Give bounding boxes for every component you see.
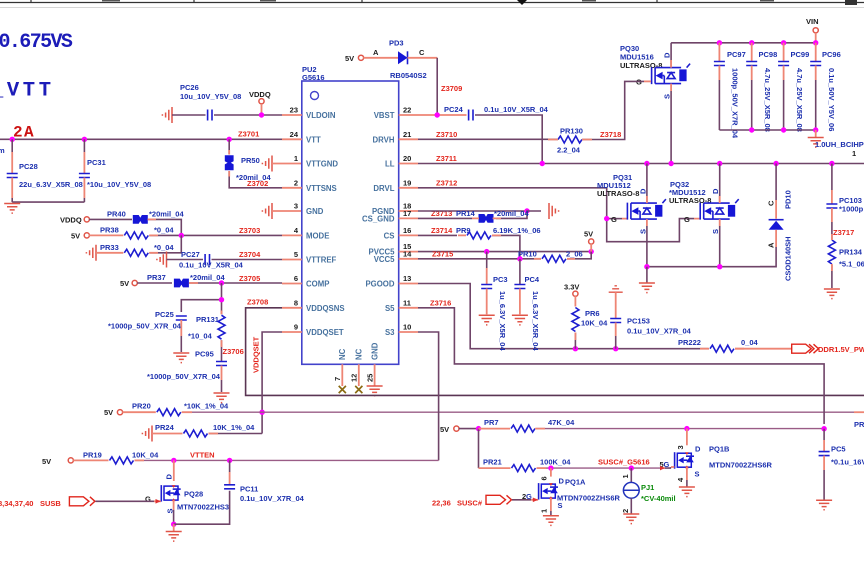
- svg-text:12: 12: [350, 374, 359, 382]
- svg-text:4.7u_25V_X5R_08: 4.7u_25V_X5R_08: [763, 68, 772, 132]
- power symbol 5V (PR37): [120, 279, 137, 288]
- power symbol 5V (PR7): [440, 425, 459, 434]
- svg-text:PQ1A: PQ1A: [565, 478, 586, 487]
- svg-text:Z3715: Z3715: [432, 249, 453, 258]
- svg-text:G: G: [684, 215, 690, 224]
- svg-text:D: D: [695, 445, 701, 454]
- svg-text:S: S: [695, 470, 700, 479]
- wire 5V split: [459, 426, 481, 468]
- svg-text:ULTRASO-8: ULTRASO-8: [620, 61, 662, 70]
- svg-text:D: D: [559, 477, 565, 486]
- title text _VTT: [0, 80, 55, 103]
- resistor PR6: [572, 296, 608, 349]
- svg-text:*0_04: *0_04: [154, 243, 174, 252]
- svg-text:G: G: [611, 215, 617, 224]
- capacitor PC27: [157, 250, 282, 269]
- svg-text:PC98: PC98: [759, 50, 778, 59]
- svg-text:RB0540S2: RB0540S2: [390, 71, 427, 80]
- svg-text:6: 6: [294, 274, 298, 283]
- wire COMP branch: [181, 283, 224, 314]
- svg-text:PR24: PR24: [155, 423, 175, 432]
- svg-text:PC28: PC28: [19, 162, 38, 171]
- svg-text:m: m: [0, 146, 5, 155]
- svg-text:VTTEN: VTTEN: [190, 450, 215, 459]
- svg-text:22,36: 22,36: [432, 498, 451, 507]
- capacitor PC3: [479, 252, 508, 352]
- svg-text:DRVH: DRVH: [373, 135, 395, 144]
- wire PQ31/PQ32 source rail: [644, 264, 776, 269]
- wire VDDQSET vertical: [259, 332, 282, 434]
- svg-text:PC97: PC97: [727, 50, 746, 59]
- power symbol VIN: [806, 17, 819, 43]
- capacitor PC96: [810, 43, 841, 132]
- svg-text:PD3: PD3: [389, 39, 404, 48]
- svg-text:6.19K_1%_06: 6.19K_1%_06: [493, 226, 541, 235]
- svg-text:1000p_50V_X7R_04: 1000p_50V_X7R_04: [731, 68, 740, 139]
- capacitor PC98: [746, 43, 777, 132]
- wire S5 Z3716: [418, 298, 824, 424]
- PU2 bottom pin numbers 7 12 25: [333, 374, 374, 382]
- transistor PQ30: [620, 43, 690, 99]
- svg-text:VDDQSET: VDDQSET: [306, 328, 344, 337]
- power symbol VDDQ (pin23): [249, 90, 271, 118]
- transistor PQ1B: [675, 429, 773, 487]
- svg-text:VTTGND: VTTGND: [306, 160, 338, 169]
- svg-text:CS: CS: [384, 231, 395, 240]
- svg-text:PR7: PR7: [484, 418, 499, 427]
- wire SUSC#_G5616 net: [537, 458, 670, 471]
- svg-text:*5.1_06: *5.1_06: [839, 260, 864, 269]
- svg-text:PC27: PC27: [181, 250, 200, 259]
- PU2 left pin names: [306, 111, 345, 337]
- svg-text:PQ28: PQ28: [184, 490, 203, 499]
- ground pin25: [367, 386, 383, 396]
- capacitor PC25: [108, 310, 189, 363]
- svg-text:PR20: PR20: [132, 402, 151, 411]
- svg-text:47K_04: 47K_04: [548, 418, 575, 427]
- wire LL rail Z3711: [418, 154, 864, 166]
- svg-text:PR19: PR19: [83, 450, 102, 459]
- svg-text:PJ1: PJ1: [641, 483, 654, 492]
- svg-text:3.3V: 3.3V: [564, 283, 579, 292]
- svg-text:10u_10V_Y5V_08: 10u_10V_Y5V_08: [180, 92, 241, 101]
- wire VCC5 Z3715: [418, 249, 541, 261]
- svg-text:Z3711: Z3711: [436, 154, 457, 163]
- svg-text:0_04: 0_04: [741, 338, 759, 347]
- svg-text:PC26: PC26: [180, 83, 199, 92]
- svg-text:PC24: PC24: [444, 105, 464, 114]
- capacitor PC24: [444, 105, 549, 164]
- transistor PQ32: [669, 164, 739, 267]
- svg-text:A: A: [767, 242, 776, 248]
- resistor PR21: [479, 458, 572, 472]
- capacitor PC5: [816, 429, 864, 510]
- resistor PR33: [86, 235, 181, 260]
- capacitor PC28: [7, 139, 83, 202]
- jumper PJ1: [621, 468, 676, 514]
- wire input-cap bottom rail: [719, 127, 818, 132]
- resistor PR37 (20mil jumper): [137, 273, 282, 287]
- wire SUSB to PQ28 gate: [96, 499, 161, 504]
- IC PU2 G5616: [302, 65, 399, 364]
- capacitor PC31: [79, 139, 151, 202]
- wire PR7 to S5 node: [536, 426, 827, 432]
- svg-text:VTT: VTT: [306, 135, 321, 144]
- resistor PR40 (20mil jumper): [89, 210, 184, 236]
- svg-text:C: C: [767, 200, 776, 206]
- svg-text:10: 10: [403, 323, 411, 332]
- no-connect X pin12: [355, 386, 362, 393]
- svg-text:PR38: PR38: [100, 226, 119, 235]
- svg-text:PR131: PR131: [196, 315, 219, 324]
- ground PQ28: [166, 524, 182, 541]
- net connector SUSB: [0, 497, 95, 508]
- resistor PR131: [188, 315, 244, 362]
- svg-text:PR: PR: [854, 420, 864, 429]
- svg-text:PC153: PC153: [627, 317, 650, 326]
- svg-text:19: 19: [403, 178, 411, 187]
- svg-text:PR14: PR14: [456, 209, 476, 218]
- svg-text:D: D: [165, 474, 174, 480]
- wire DRVL Z3712: [418, 178, 700, 241]
- svg-text:PGOOD: PGOOD: [365, 280, 394, 289]
- wire PD3 cathode to VBST: [437, 58, 462, 115]
- svg-text:10K_04: 10K_04: [581, 319, 608, 328]
- svg-text:VIN: VIN: [806, 17, 819, 26]
- svg-text:PR21: PR21: [483, 458, 502, 467]
- svg-text:16: 16: [403, 226, 411, 235]
- svg-text:GND: GND: [371, 342, 380, 360]
- svg-text:ULTRASO-8: ULTRASO-8: [597, 189, 639, 198]
- svg-text:PR33: PR33: [100, 243, 119, 252]
- capacitor PC153: [610, 292, 691, 349]
- wire PQ30 source to LL rail: [670, 91, 672, 164]
- svg-text:Z3702: Z3702: [247, 179, 268, 188]
- resistor PR9: [456, 226, 541, 259]
- svg-text:5V: 5V: [104, 408, 113, 417]
- svg-text:23: 23: [290, 106, 298, 115]
- svg-text:5: 5: [294, 250, 298, 259]
- svg-text:D: D: [663, 52, 672, 58]
- resistor PR7: [479, 418, 576, 432]
- svg-text:VDDQ: VDDQ: [249, 90, 271, 99]
- power symbol 5V (PR19): [42, 457, 73, 466]
- PU2 right pin numbers: [403, 106, 412, 332]
- resistor PR50 (20mil jumper): [225, 139, 282, 188]
- power bar symbol above PC153: [609, 286, 623, 292]
- svg-text:Z3712: Z3712: [436, 178, 457, 187]
- svg-text:S5: S5: [385, 304, 395, 313]
- svg-text:S3: S3: [385, 328, 395, 337]
- svg-text:MTDN7002ZHS6R: MTDN7002ZHS6R: [557, 494, 621, 503]
- svg-text:VDDQSNS: VDDQSNS: [306, 304, 345, 313]
- svg-text:G: G: [145, 495, 151, 504]
- svg-text:8,34,37,40: 8,34,37,40: [0, 499, 33, 508]
- svg-text:PR134: PR134: [839, 248, 863, 257]
- PU2 bottom pin names NC NC GND: [338, 342, 379, 360]
- svg-text:Z3703: Z3703: [239, 226, 260, 235]
- svg-text:Z3705: Z3705: [239, 274, 260, 283]
- svg-text:10K_04: 10K_04: [132, 450, 159, 459]
- resistor PR38: [89, 226, 282, 239]
- node VIN rail junctions: [717, 40, 819, 45]
- svg-text:PR40: PR40: [107, 210, 126, 219]
- svg-text:1.0UH_BCIHP1: 1.0UH_BCIHP1: [815, 140, 864, 149]
- svg-text:Z3717: Z3717: [833, 228, 854, 237]
- capacitor PC11: [224, 460, 305, 503]
- svg-text:0.1u_10V_X7R_04: 0.1u_10V_X7R_04: [627, 327, 692, 336]
- svg-text:2: 2: [621, 509, 630, 513]
- net label VDDQSET (vertical): [252, 336, 261, 373]
- svg-text:DRVL: DRVL: [373, 184, 394, 193]
- resistor PR222: [678, 338, 792, 352]
- svg-text:Z3708: Z3708: [247, 298, 268, 307]
- svg-text:*20mil_04: *20mil_04: [190, 273, 225, 282]
- svg-text:PC25: PC25: [155, 310, 174, 319]
- net connector DDR1.5V_PW: [792, 344, 864, 354]
- capacitor PC26: [162, 83, 282, 123]
- svg-text:Z3714: Z3714: [431, 226, 453, 235]
- svg-text:S: S: [711, 229, 720, 234]
- wire PVCC5 5V row: [418, 249, 594, 254]
- net label m (cut at left edge): [0, 146, 5, 155]
- resistor PR134: [824, 240, 864, 299]
- svg-text:14: 14: [403, 249, 412, 258]
- power symbol 5V (PR20): [104, 408, 123, 417]
- svg-text:*1000p_50V_X7R_04: *1000p_50V_X7R_04: [147, 372, 221, 381]
- svg-text:Z3716: Z3716: [430, 298, 451, 307]
- svg-text:PC96: PC96: [822, 50, 841, 59]
- svg-text:*0_04: *0_04: [154, 226, 174, 235]
- capacitor PC4: [512, 259, 540, 352]
- ground source rail: [639, 267, 655, 293]
- svg-text:5V: 5V: [120, 279, 129, 288]
- PU2 right pin names: [362, 111, 395, 337]
- svg-text:*10_04: *10_04: [188, 332, 213, 341]
- svg-text:C: C: [419, 48, 425, 57]
- title text 0.675VS: [0, 31, 73, 54]
- net label 2A: [13, 124, 35, 142]
- svg-text:VDDQ: VDDQ: [60, 215, 82, 224]
- wire VBST to PC24: [418, 112, 467, 117]
- wire PC28/PC31 bottom rail: [12, 201, 84, 203]
- svg-text:VLDOIN: VLDOIN: [306, 111, 336, 120]
- svg-text:MODE: MODE: [306, 231, 329, 240]
- svg-text:21: 21: [403, 130, 411, 139]
- svg-text:CS_GND: CS_GND: [362, 215, 395, 224]
- svg-text:Z3718: Z3718: [600, 130, 621, 139]
- wire VIN rail: [671, 42, 816, 44]
- ground PGND: [549, 203, 559, 219]
- svg-text:D: D: [638, 188, 647, 194]
- svg-text:PC5: PC5: [831, 445, 846, 454]
- capacitor PC103: [826, 164, 863, 240]
- svg-text:2_06: 2_06: [566, 249, 583, 258]
- wire PGND/CS_GND Z3713: [418, 208, 541, 218]
- svg-text:1u_6.3V_X5R_04: 1u_6.3V_X5R_04: [498, 291, 507, 351]
- svg-text:1: 1: [852, 149, 856, 158]
- power symbol VDDQ (MODE row): [60, 215, 89, 224]
- svg-text:4: 4: [676, 477, 685, 482]
- svg-text:0.1u_10V_X5R_04: 0.1u_10V_X5R_04: [179, 260, 244, 269]
- ground PQ1B: [679, 487, 695, 497]
- net connector SUSC#: [432, 495, 512, 507]
- svg-text:S: S: [638, 229, 647, 234]
- svg-text:MTN7002ZHS3: MTN7002ZHS3: [177, 503, 229, 512]
- svg-text:PC31: PC31: [87, 158, 106, 167]
- net label PR (cut at right edge): [854, 420, 864, 429]
- svg-text:1: 1: [294, 154, 298, 163]
- wire PQ1B gate lead: [665, 467, 675, 468]
- resistor PR20: [122, 402, 229, 416]
- svg-text:PR10: PR10: [518, 249, 537, 258]
- svg-text:_VTT: _VTT: [0, 80, 55, 103]
- svg-text:PC4: PC4: [525, 275, 540, 284]
- svg-text:Z3709: Z3709: [441, 84, 462, 93]
- wire component lead stubs: [135, 140, 832, 469]
- svg-text:PR130: PR130: [560, 127, 583, 136]
- svg-text:*CV-40mil: *CV-40mil: [641, 494, 676, 503]
- svg-text:NC: NC: [355, 348, 364, 360]
- ground PQ1A: [543, 516, 559, 526]
- svg-text:SUSC#_G5616: SUSC#_G5616: [598, 458, 650, 467]
- svg-text:22u_6.3V_X5R_08: 22u_6.3V_X5R_08: [19, 180, 83, 189]
- svg-text:6: 6: [540, 476, 549, 480]
- svg-text:*1000p_50V_X7R_04: *1000p_50V_X7R_04: [108, 322, 182, 331]
- svg-text:5V: 5V: [584, 230, 593, 239]
- svg-text:SUSC#: SUSC#: [457, 498, 483, 507]
- svg-text:PC3: PC3: [493, 275, 508, 284]
- svg-text:Z3710: Z3710: [436, 130, 457, 139]
- svg-text:PR6: PR6: [585, 309, 600, 318]
- wire S3 to VTTEN: [418, 332, 439, 460]
- svg-text:PR37: PR37: [147, 273, 166, 282]
- svg-text:5V: 5V: [71, 231, 80, 240]
- wire PR20 rail: [182, 411, 864, 413]
- svg-text:COMP: COMP: [306, 280, 329, 289]
- svg-text:4.7u_25V_X5R_08: 4.7u_25V_X5R_08: [795, 68, 804, 132]
- svg-text:LL: LL: [385, 160, 395, 169]
- svg-text:VCC5: VCC5: [374, 255, 395, 264]
- svg-text:100K_04: 100K_04: [540, 458, 571, 467]
- svg-text:5V: 5V: [345, 54, 354, 63]
- svg-text:S: S: [663, 94, 672, 99]
- svg-text:1u_6.3V_X5R_04: 1u_6.3V_X5R_04: [531, 291, 540, 351]
- svg-text:PC11: PC11: [240, 485, 258, 494]
- diode PD10: [760, 164, 793, 282]
- svg-text:PC99: PC99: [791, 50, 810, 59]
- wire DRVH Z3710: [418, 130, 558, 140]
- PU2 left pin stubs: [282, 115, 302, 332]
- svg-text:5V: 5V: [42, 457, 51, 466]
- PU2 bottom pin stubs: [342, 364, 374, 386]
- svg-text:8: 8: [294, 298, 298, 307]
- PU2 right pin stubs: [399, 115, 418, 332]
- svg-text:PR222: PR222: [678, 338, 701, 347]
- svg-text:7: 7: [333, 377, 342, 381]
- svg-text:5V: 5V: [440, 425, 449, 434]
- power symbol 5V (PR38): [71, 231, 89, 240]
- svg-text:VTTSNS: VTTSNS: [306, 184, 337, 193]
- svg-text:3: 3: [294, 202, 298, 211]
- ground under PC96: [808, 130, 824, 147]
- svg-text:20: 20: [403, 154, 411, 163]
- svg-text:1: 1: [540, 509, 549, 513]
- wire VTT rail: [0, 130, 282, 142]
- wire CS Z3714: [418, 226, 457, 236]
- no-connect X pin7: [339, 386, 346, 393]
- svg-text:11: 11: [403, 298, 411, 307]
- svg-text:DDR1.5V_PW: DDR1.5V_PW: [818, 345, 864, 354]
- svg-text:10K_1%_04: 10K_1%_04: [213, 423, 255, 432]
- svg-text:Z3706: Z3706: [223, 347, 244, 356]
- svg-text:D: D: [711, 188, 720, 194]
- svg-text:Z3701: Z3701: [238, 130, 259, 139]
- svg-text:A: A: [373, 48, 379, 57]
- ground pin3 GND: [262, 203, 301, 219]
- svg-text:13: 13: [403, 274, 411, 283]
- ground PJ1: [623, 514, 639, 524]
- transistor PQ28: [145, 460, 229, 524]
- resistor PR10: [518, 249, 591, 262]
- svg-text:25: 25: [365, 374, 374, 382]
- svg-text:22: 22: [403, 106, 411, 115]
- svg-text:VTTREF: VTTREF: [306, 256, 337, 265]
- svg-text:1: 1: [621, 474, 630, 478]
- svg-text:4: 4: [294, 226, 299, 235]
- svg-text:VDDQSET: VDDQSET: [252, 336, 261, 373]
- capacitor PC95: [147, 350, 230, 403]
- inductor PL (1.0UH_BCIHP1, cut at right edge): [815, 140, 864, 158]
- svg-text:*20mil_04: *20mil_04: [494, 209, 529, 218]
- svg-text:Z3704: Z3704: [239, 250, 261, 259]
- svg-text:PR50: PR50: [241, 156, 260, 165]
- resistor PR19: [73, 450, 159, 464]
- power symbol 3.3V: [564, 283, 579, 297]
- svg-text:0.1u_50V_Y5V_06: 0.1u_50V_Y5V_06: [827, 68, 836, 131]
- wire PGOOD to PR222: [418, 284, 708, 352]
- transistor PQ31: [597, 164, 666, 267]
- power symbol 5V (PVCC5): [584, 230, 594, 252]
- transistor PQ1A: [522, 468, 621, 516]
- resistor PR24: [142, 423, 262, 442]
- resistor PR14 (20mil jumper): [456, 209, 529, 223]
- svg-text:*10K_1%_04: *10K_1%_04: [184, 402, 229, 411]
- wire SUSC# to PQ1A gate: [512, 498, 538, 503]
- svg-text:17: 17: [403, 209, 411, 218]
- svg-text:3: 3: [676, 445, 685, 449]
- svg-text:MTDN7002ZHS6R: MTDN7002ZHS6R: [709, 461, 773, 470]
- svg-text:2.2_04: 2.2_04: [557, 146, 581, 155]
- svg-text:*1000p: *1000p: [839, 205, 864, 214]
- wire VTTEN net: [135, 450, 439, 463]
- capacitor PC99: [778, 43, 809, 132]
- svg-text:VBST: VBST: [374, 111, 395, 120]
- resistor PR130: [557, 127, 621, 155]
- svg-text:NC: NC: [338, 348, 347, 360]
- wire PQ28 source rail: [171, 491, 230, 527]
- svg-text:24: 24: [290, 130, 299, 139]
- svg-text:0.675VS: 0.675VS: [0, 31, 73, 54]
- svg-text:GND: GND: [306, 207, 324, 216]
- svg-text:PQ1B: PQ1B: [709, 445, 730, 454]
- ground under PC28: [4, 204, 20, 214]
- svg-text:SUSB: SUSB: [40, 499, 61, 508]
- svg-text:2: 2: [294, 178, 298, 187]
- wire Z3718 to PQ30 gate: [582, 81, 651, 139]
- ground pin1 VTTGND: [262, 156, 301, 172]
- capacitor PC97: [714, 43, 746, 139]
